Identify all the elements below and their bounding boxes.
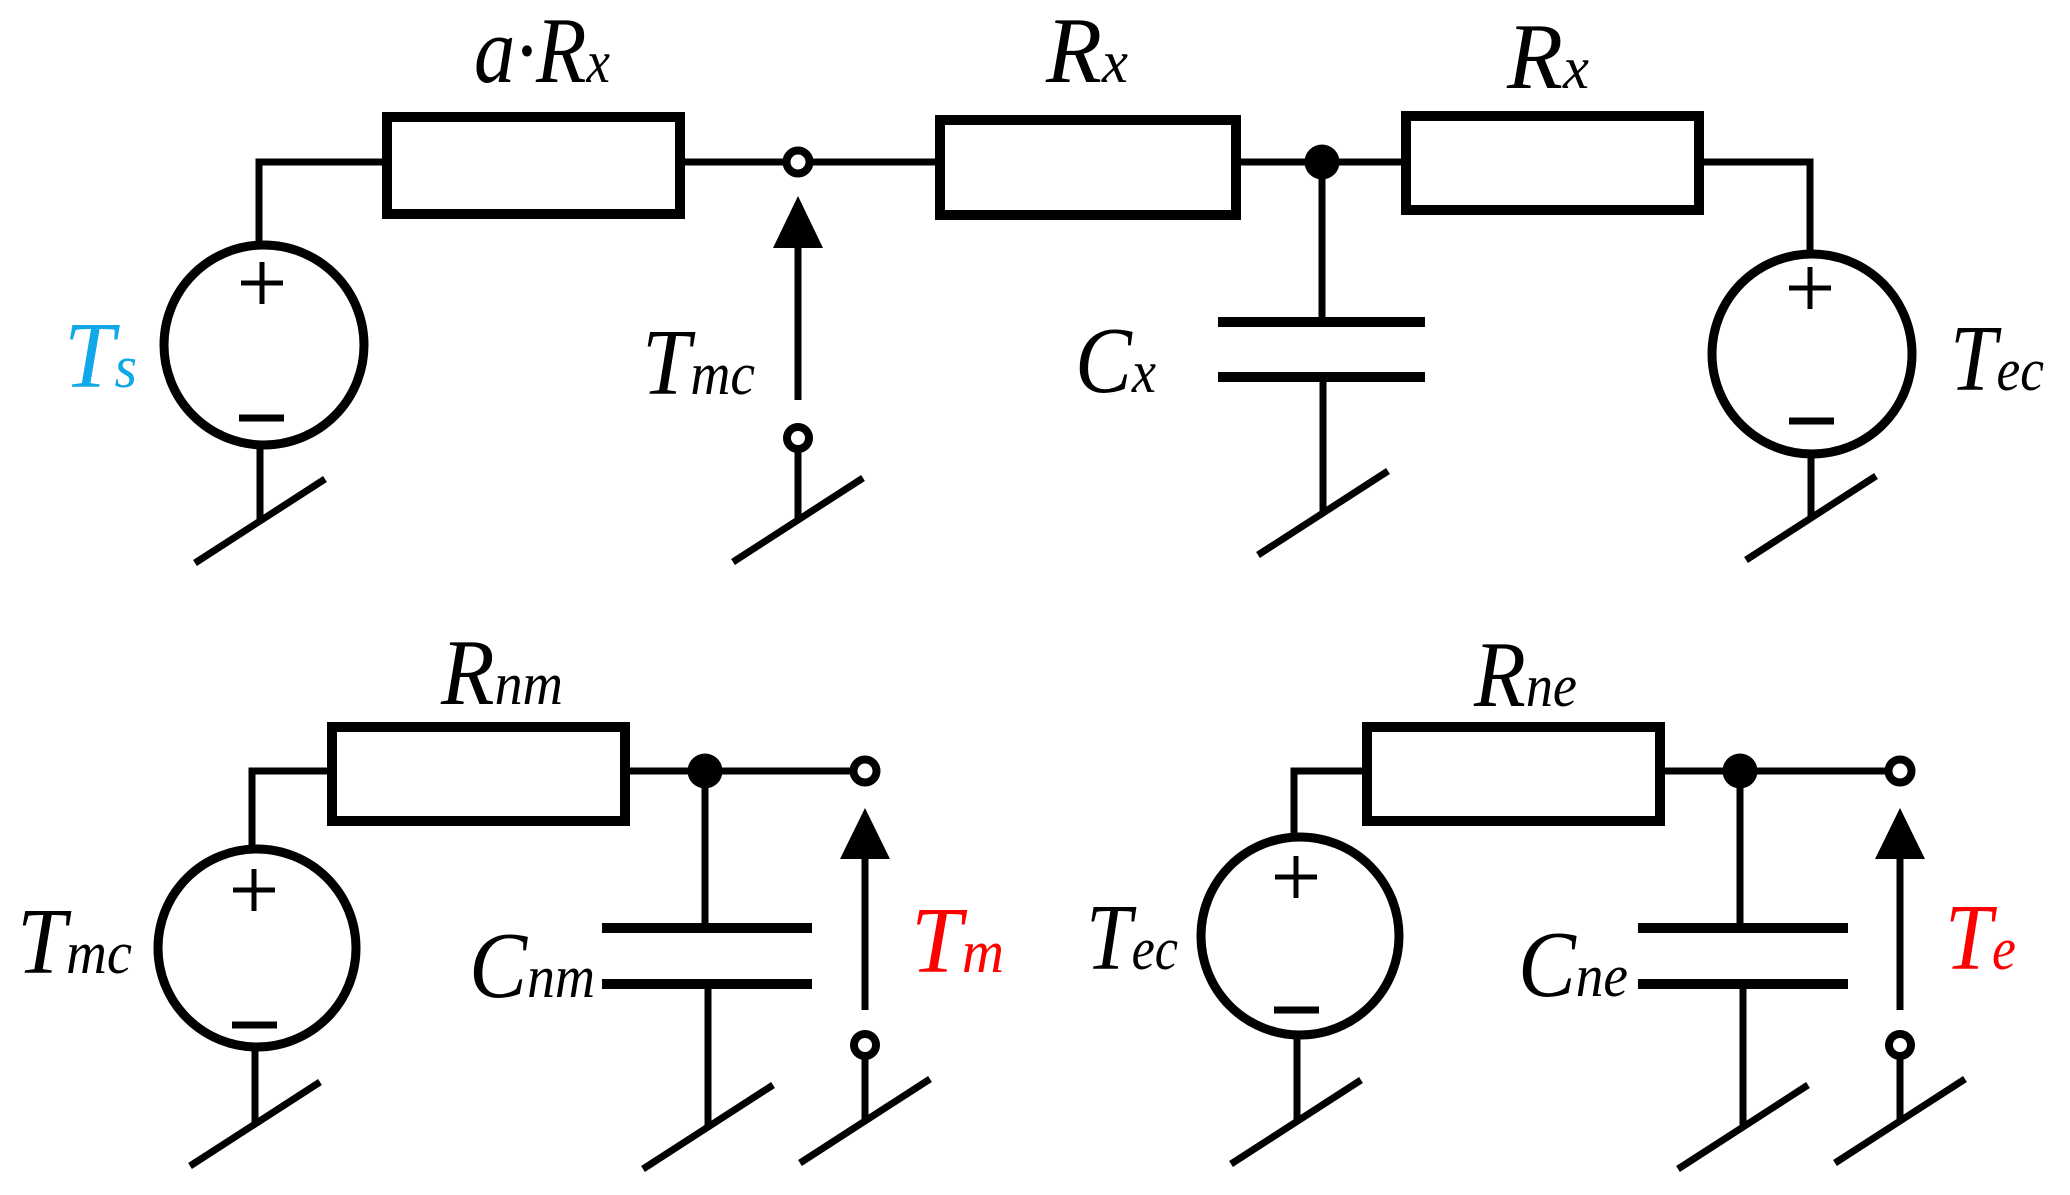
ground under Tmc source	[190, 1082, 320, 1166]
resistor a·Rx	[387, 117, 680, 214]
voltage source Ts	[164, 245, 364, 445]
node Tmc terminal	[787, 151, 810, 174]
ground under Cne	[1678, 1085, 1808, 1169]
ground under Tec source	[1231, 1080, 1361, 1164]
junction node	[1305, 145, 1340, 180]
wire Tec source to Rne	[1294, 771, 1364, 838]
ground under Tm probe	[800, 1079, 930, 1163]
wire Rnm to terminal Tm	[628, 768, 852, 775]
resistor Rne	[1367, 727, 1660, 821]
terminal circle Te lower	[1889, 1034, 1911, 1056]
wire Rne to terminal Te	[1663, 768, 1887, 775]
ground under Cx	[1258, 471, 1388, 555]
wire Rx to Tec	[1704, 162, 1810, 252]
arrow Tmc	[773, 196, 823, 400]
voltage source Tmc	[158, 849, 356, 1047]
junction node Cne tap	[1723, 754, 1758, 789]
wire Tmc source to ground	[252, 1047, 259, 1124]
junction node Cnm tap	[688, 754, 723, 789]
ground under Tec	[1746, 476, 1876, 560]
voltage source Tec	[1712, 254, 1912, 454]
terminal circle Tm lower	[854, 1034, 876, 1056]
wire a·Rx to node Tmc	[685, 159, 935, 166]
wire Ts to ground	[257, 445, 264, 521]
capacitor Cx	[1218, 162, 1425, 513]
ground under Tmc probe	[733, 478, 863, 562]
wire Ts to a·Rx	[259, 162, 384, 242]
voltage source Tec bottom	[1201, 837, 1399, 1035]
wire Tmc terminal to ground	[795, 452, 802, 520]
wire Tmc source to Rnm	[252, 771, 329, 848]
wire Tec source to ground	[1294, 1036, 1301, 1122]
ground under Ts	[195, 479, 325, 563]
terminal circle Tmc lower	[787, 427, 809, 449]
resistor Rnm	[332, 727, 625, 821]
arrow Tm	[840, 808, 890, 1010]
resistor Rx	[940, 120, 1236, 215]
wire Tec to ground	[1808, 454, 1815, 518]
terminal Te upper	[1889, 760, 1912, 783]
capacitor Cne	[1638, 771, 1848, 1126]
resistor Rx right	[1406, 116, 1699, 210]
arrow Te	[1875, 808, 1925, 1010]
wire Te terminal to ground	[1897, 1059, 1904, 1121]
terminal Tm upper	[854, 760, 877, 783]
ground under Te probe	[1835, 1079, 1965, 1163]
wire Rx to Rx	[1241, 159, 1401, 166]
wire Tm terminal to ground	[862, 1059, 869, 1121]
capacitor Cnm	[602, 771, 812, 1126]
ground under Cnm	[643, 1085, 773, 1169]
